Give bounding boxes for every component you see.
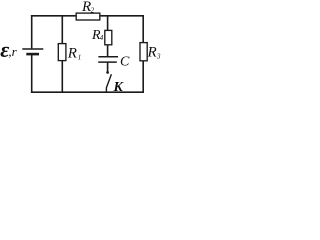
svg-text:3: 3 xyxy=(156,53,161,61)
svg-text:1: 1 xyxy=(78,54,82,62)
svg-text:R: R xyxy=(147,45,157,61)
svg-text:K: K xyxy=(113,80,125,95)
svg-text:C: C xyxy=(120,54,130,69)
svg-text:,r: ,r xyxy=(8,44,17,59)
svg-text:2: 2 xyxy=(91,6,95,14)
svg-text:4: 4 xyxy=(100,34,104,42)
svg-text:R: R xyxy=(67,46,77,62)
